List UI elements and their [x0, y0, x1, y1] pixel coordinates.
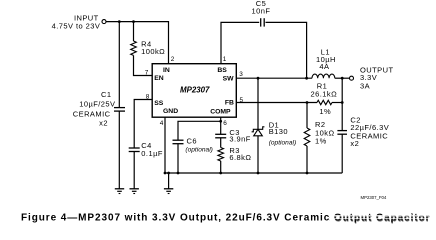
wire SW pin line: [236, 77, 312, 79]
resistor R1: [317, 100, 332, 104]
capacitor C6: [173, 140, 184, 144]
svg-text:MP2307_F04: MP2307_F04: [361, 195, 387, 200]
svg-text:(optional): (optional): [269, 140, 297, 147]
op-amp U1 MP2307 IC body: [152, 64, 236, 117]
wire C4 to ground: [133, 151, 135, 188]
wire BS pin to C5: [221, 22, 259, 63]
node R4 tap on input line: [132, 20, 135, 23]
svg-text:FB: FB: [225, 100, 234, 107]
capacitor C6 labels: [185, 137, 213, 154]
wire L1 to output terminal: [335, 77, 350, 79]
svg-text:COMP: COMP: [210, 108, 231, 115]
svg-text:1%: 1%: [319, 107, 331, 116]
svg-text:4.75V to 23V: 4.75V to 23V: [52, 21, 101, 30]
svg-text:SS: SS: [154, 100, 164, 107]
resistor R2 labels: [315, 120, 335, 146]
svg-text:C6: C6: [187, 137, 198, 146]
svg-text:1%: 1%: [315, 137, 327, 146]
capacitor C2: [337, 131, 347, 135]
wire R1 right lead: [332, 102, 342, 104]
svg-text:1: 1: [223, 56, 227, 63]
svg-text:6.8kΩ: 6.8kΩ: [229, 153, 251, 162]
wire D1 anode to bus: [257, 136, 259, 173]
svg-text:10µF/25V: 10µF/25V: [79, 99, 115, 108]
wire C6 to bus: [177, 144, 179, 173]
capacitor C3: [215, 134, 226, 138]
svg-text:2: 2: [171, 56, 175, 63]
wire C1 branch upper: [118, 22, 120, 108]
wire C5 right to SW line: [266, 22, 307, 78]
svg-text:CERAMIC: CERAMIC: [73, 110, 111, 119]
svg-text:4: 4: [160, 120, 164, 127]
svg-text:IN: IN: [163, 67, 170, 74]
wire bus ground stem: [168, 173, 170, 189]
capacitor C2 labels: [350, 116, 389, 149]
wire output to C2 top: [341, 78, 343, 130]
resistor R4 value label: [141, 40, 165, 56]
node D1 tap on SW line: [257, 77, 260, 80]
svg-text:BS: BS: [217, 67, 227, 74]
wire R4 to EN pin: [134, 55, 153, 75]
wire input line to IN pin: [106, 22, 168, 64]
svg-text:4A: 4A: [319, 62, 329, 71]
svg-text:7: 7: [145, 69, 149, 76]
inductor L1 labels: [316, 48, 336, 72]
node OUTPUT labels: [360, 66, 394, 91]
svg-text:0.1µF: 0.1µF: [141, 149, 163, 158]
node INPUT labels: [52, 14, 101, 31]
wire SS pin to C4: [134, 100, 152, 148]
svg-text:6: 6: [223, 120, 227, 127]
resistor R4: [131, 41, 137, 55]
resistor R2: [304, 128, 310, 146]
wire GND pin to bus: [164, 117, 166, 173]
node R3 on bus: [219, 172, 222, 175]
inductor L1: [312, 74, 335, 78]
node output/C2 junction: [341, 77, 344, 80]
wire C2 bottom to bus: [341, 135, 343, 174]
wire C3 to R3: [220, 138, 222, 148]
svg-text:x2: x2: [350, 139, 359, 148]
IC pin labels inside: [154, 67, 234, 115]
svg-text:B130: B130: [269, 127, 288, 136]
resistor R3 labels: [229, 146, 251, 162]
wire R2 bottom lead: [306, 146, 308, 173]
capacitor C5: [261, 18, 265, 26]
capacitor C1: [114, 108, 125, 112]
IC pin numbers: [145, 56, 244, 127]
capacitor C4: [129, 148, 140, 152]
node C5 tap on SW line: [305, 77, 308, 80]
input terminal: [102, 20, 106, 24]
wire R2 top lead: [306, 103, 308, 129]
svg-text:MP2307: MP2307: [180, 85, 210, 94]
node R1/C2 junction: [341, 101, 344, 104]
wire COMP pin down: [220, 117, 222, 134]
svg-text:EN: EN: [154, 75, 164, 82]
capacitor C4 labels: [141, 141, 163, 158]
node C6 on bus: [177, 172, 180, 175]
wire ground bus: [165, 172, 342, 174]
diode D1 labels: [269, 121, 297, 147]
node ground stem on bus: [167, 172, 170, 175]
svg-text:10nF: 10nF: [252, 7, 271, 16]
svg-text:3: 3: [239, 71, 243, 78]
wire R3 to bus: [220, 161, 222, 173]
svg-text:8: 8: [146, 93, 150, 100]
wire D1 cathode to SW: [257, 78, 259, 129]
wire R4 branch top: [133, 22, 135, 41]
node FB/R2 junction: [306, 101, 309, 104]
node R2 on bus: [306, 172, 309, 175]
svg-text:5: 5: [240, 97, 244, 104]
output terminal: [350, 76, 354, 80]
diode D1 B130 schottky: [252, 127, 265, 136]
node D1 on bus: [257, 172, 260, 175]
resistor R3: [218, 148, 224, 161]
svg-text:SW: SW: [223, 76, 235, 83]
capacitor C3 labels: [229, 128, 250, 143]
ground under C1: [115, 189, 124, 194]
wire C1 branch lower: [118, 111, 120, 188]
svg-text:3A: 3A: [360, 81, 370, 90]
ground under bus: [164, 189, 173, 194]
svg-text:GND: GND: [163, 108, 178, 115]
wire COMP to C6: [178, 121, 221, 140]
wire FB pin line: [236, 102, 317, 104]
svg-text:C1: C1: [101, 90, 112, 99]
node COMP/C6 junction: [219, 120, 222, 123]
svg-text:26.1kΩ: 26.1kΩ: [310, 90, 337, 99]
svg-text:3.9nF: 3.9nF: [229, 134, 250, 143]
node C1 tap on input line: [118, 20, 121, 23]
svg-text:100kΩ: 100kΩ: [141, 47, 165, 56]
node GND pin on bus: [164, 172, 167, 175]
resistor R1 labels: [310, 82, 337, 117]
svg-text:(optional): (optional): [185, 147, 213, 154]
ground under C4: [130, 189, 139, 194]
capacitor C5 labels: [252, 0, 271, 16]
node junction dots: [118, 20, 344, 174]
svg-text:x2: x2: [99, 118, 108, 127]
capacitor C1 labels: [73, 90, 116, 127]
